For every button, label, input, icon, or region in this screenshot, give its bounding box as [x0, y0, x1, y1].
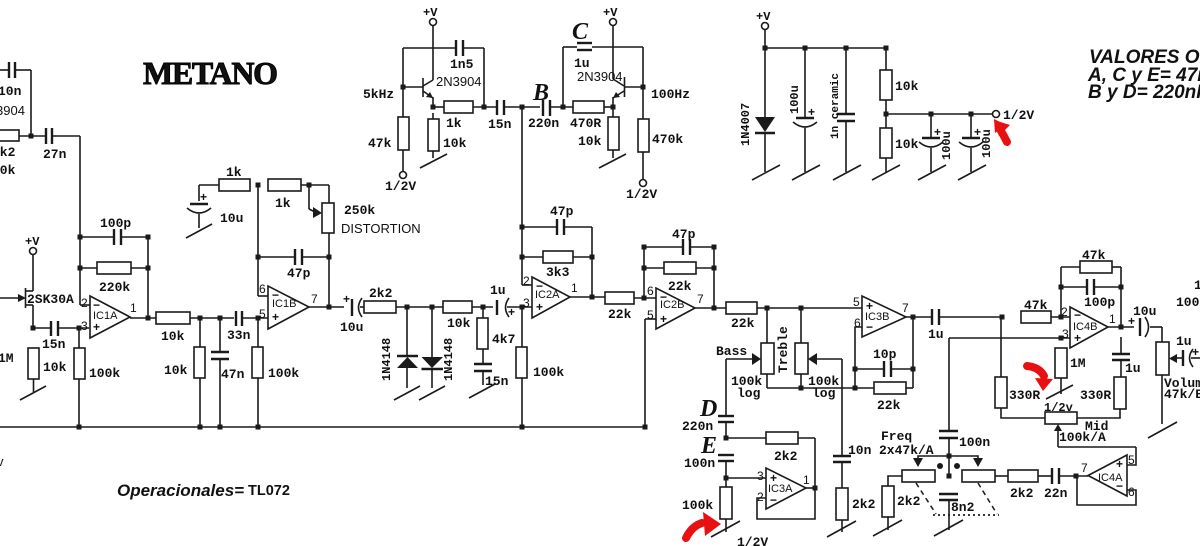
node IC3A out: [806, 487, 815, 489]
svg-text:1/2V: 1/2V: [737, 535, 768, 546]
wire IC4B output node: [1108, 326, 1134, 328]
potentiometer Freq right 47k/A: [962, 470, 1008, 482]
svg-text:1k: 1k: [446, 116, 462, 131]
svg-text:47p: 47p: [550, 204, 574, 219]
wire 1/2V row: [886, 113, 992, 115]
svg-text:Freq: Freq: [881, 429, 912, 444]
node 1k junction: [256, 183, 261, 188]
wire 27n down to IC1A feedback column: [79, 136, 81, 305]
capacitor 22n (into IC4A): [1044, 468, 1088, 501]
node between freq pots: [947, 474, 952, 479]
op-amp U3 IC2A: [523, 274, 578, 318]
ground slash (100u 1): [792, 165, 820, 180]
op-amp U1 IC1A: [80, 296, 137, 338]
resistor 10k (after diodes): [443, 301, 493, 331]
svg-text:47k/B: 47k/B: [1164, 387, 1200, 402]
svg-text:IC4A: IC4A: [1098, 472, 1123, 484]
capacitor 47p (IC1B feedback): [258, 249, 329, 281]
svg-text:IC3B: IC3B: [865, 311, 889, 323]
resistor 100k (IC1A pin3 to rail): [74, 328, 120, 427]
svg-text:+: +: [343, 292, 350, 306]
svg-text:100k: 100k: [533, 365, 564, 380]
node IC3A pin3: [724, 476, 729, 481]
capacitor 1n5: [450, 40, 484, 107]
svg-text:1u: 1u: [928, 327, 944, 342]
node IC2B pin6: [642, 296, 647, 301]
wire IC2B feedback left column: [643, 247, 645, 298]
svg-text:+: +: [1116, 457, 1123, 471]
svg-text:2N3904: 2N3904: [436, 74, 482, 89]
svg-text:1/2V: 1/2V: [626, 187, 657, 202]
capacitor 100p (IC1A feedback): [80, 216, 148, 245]
ground slash 1/2V (1M): [1046, 385, 1073, 399]
wire IC2B feedback right column: [713, 247, 715, 308]
svg-text:5: 5: [853, 295, 860, 309]
capacitor 1u (output): [1176, 334, 1200, 367]
ground slash (1N4007): [752, 165, 780, 180]
junction dots on treble bottom rail: [799, 386, 804, 391]
svg-text:log: log: [737, 386, 761, 401]
wire treble bottom rail: [767, 387, 874, 389]
resistor 10k (PSU bottom): [880, 114, 919, 172]
svg-text:7: 7: [697, 292, 704, 306]
ground slash (Q2 10k): [420, 154, 447, 168]
wire feedback right column: [147, 237, 149, 318]
svg-text:3: 3: [81, 319, 88, 333]
svg-text:IC1A: IC1A: [93, 310, 118, 322]
svg-text:v: v: [0, 454, 4, 469]
svg-text:330R: 330R: [1080, 388, 1111, 403]
resistor 2k2 (treble wiper): [836, 488, 876, 532]
resistor 10k (shunt to rail): [164, 318, 205, 427]
power +V terminal (Q3): [603, 6, 618, 79]
resistor 10k (IC1A out): [156, 312, 234, 344]
potentiometer Treble 100k log: [776, 308, 842, 401]
capacitor 100u (PSU 1): [788, 48, 817, 172]
svg-text:2k2: 2k2: [1010, 486, 1034, 501]
wire bass wiper to D cap: [725, 359, 727, 416]
svg-text:47p: 47p: [287, 266, 311, 281]
node 47k/330R: [1000, 315, 1005, 320]
svg-text:1N4148: 1N4148: [442, 338, 456, 381]
svg-text:470R: 470R: [570, 116, 601, 131]
capacitor 47p (IC2A feedback): [522, 204, 592, 235]
ground slash (JFET 10k): [20, 386, 46, 400]
node 47n: [218, 316, 223, 321]
svg-text:10k: 10k: [0, 163, 16, 178]
wire 10n to junction: [30, 70, 32, 136]
svg-text:1u: 1u: [1176, 334, 1192, 349]
junction dots on PSU rail: [763, 46, 768, 51]
op-amp U8 IC4A (mirrored): [1081, 453, 1135, 499]
svg-text:2k2: 2k2: [897, 494, 921, 509]
svg-text:3: 3: [757, 469, 764, 483]
svg-text:100u: 100u: [940, 131, 954, 160]
svg-text:22k: 22k: [668, 279, 692, 294]
resistor 100k (IC1B pin5 to rail): [252, 318, 299, 427]
resistor 100k (IC2A pin3 to rail): [516, 307, 564, 427]
svg-text:3: 3: [523, 296, 530, 310]
svg-text:10n: 10n: [0, 84, 22, 99]
potentiometer Mid 100k/A: [1045, 412, 1136, 447]
node 1k2 junction: [307, 183, 312, 188]
svg-text:6: 6: [647, 284, 654, 298]
svg-text:IC2A: IC2A: [535, 289, 560, 301]
terminal 1/2V (PSU): [993, 108, 1035, 123]
svg-text:100k: 100k: [268, 366, 299, 381]
wire base up and over to 1n5: [402, 48, 404, 87]
svg-text:1/2V: 1/2V: [385, 179, 416, 194]
resistor 10k (PSU top): [880, 48, 919, 114]
svg-text:10k: 10k: [447, 316, 471, 331]
node Q3 base: [641, 85, 646, 90]
capacitor 220n (D): [682, 416, 734, 438]
power +V terminal (Q2): [423, 6, 438, 80]
svg-text:1n ceramic: 1n ceramic: [830, 73, 842, 139]
resistor 1k (bias row left): [199, 165, 250, 201]
capacitor 1u (IC3B out coupling): [928, 309, 1002, 342]
svg-text:1M: 1M: [1070, 356, 1086, 371]
capacitor 10u (coupling after IC1B): [340, 292, 364, 335]
node 10k vert: [198, 316, 203, 321]
terminal 1/2V (470k): [626, 180, 657, 203]
resistor 22k (IC3B feedback): [874, 382, 913, 413]
svg-text:100Hz: 100Hz: [651, 87, 690, 102]
svg-text:10k: 10k: [161, 329, 185, 344]
ground slash (D2): [419, 386, 445, 400]
svg-text:47p: 47p: [672, 227, 696, 242]
svg-text:2: 2: [1061, 305, 1068, 319]
wire IC3B feedback right column: [912, 317, 914, 388]
svg-text:1: 1: [571, 281, 578, 295]
wire IC3A pin3 row: [726, 477, 766, 479]
power +V terminal (PSU): [756, 10, 771, 48]
ground slash (100u 2): [918, 165, 946, 180]
junction IC3B feedback right nodes: [911, 367, 916, 372]
wire IC3A pin2 loop: [757, 488, 815, 519]
capacitor 100u (PSU 2): [919, 114, 954, 172]
svg-text:250k: 250k: [344, 203, 375, 218]
svg-text:3904: 3904: [0, 103, 25, 118]
svg-text:1k: 1k: [275, 196, 291, 211]
resistor 220k (IC1A feedback): [80, 262, 148, 295]
resistor 2k2 (into IC4A): [1008, 470, 1052, 501]
wire bottom rail: [0, 426, 645, 428]
svg-text:+: +: [200, 190, 207, 204]
ground slash (10u bias): [186, 224, 212, 238]
capacitor 15n (below 4k7): [474, 364, 509, 389]
wire IC1A output: [130, 317, 156, 319]
op-amp U4 IC2B: [647, 284, 704, 329]
svg-text:1u: 1u: [1125, 361, 1141, 376]
node diode 1: [405, 305, 410, 310]
resistor 3k3 (IC2A feedback): [522, 251, 592, 280]
ground slash (2k2 treble): [827, 521, 856, 537]
gang dashed lines: [916, 483, 936, 514]
svg-text:100u: 100u: [788, 85, 802, 114]
ground slash (10k PSU): [872, 165, 900, 180]
svg-text:8n2: 8n2: [951, 500, 975, 515]
node top-left junction: [29, 134, 34, 139]
node diode 2: [430, 305, 435, 310]
wire IC2A feedback right column: [591, 227, 593, 297]
svg-text:+: +: [1074, 331, 1081, 345]
wire to right wiper: [949, 456, 978, 459]
svg-text:2: 2: [81, 296, 88, 310]
svg-text:+: +: [93, 320, 100, 334]
resistor 2k2 (top-left, cut): [0, 130, 46, 178]
capacitor 10p (IC3B feedback): [855, 347, 913, 377]
svg-text:220k: 220k: [99, 280, 130, 295]
svg-text:1: 1: [1109, 312, 1116, 326]
svg-text:−: −: [1074, 308, 1081, 322]
resistor 22k (IC2B out): [726, 302, 862, 331]
resistor 100k (to 1/2V bottom): [682, 487, 732, 532]
svg-text:−: −: [770, 493, 777, 507]
node 1n5/15n: [482, 105, 487, 110]
node IC1A pin3: [77, 326, 82, 331]
svg-text:22k: 22k: [608, 307, 632, 322]
potentiometer 250k DISTORTION: [309, 185, 421, 257]
svg-text:10k: 10k: [578, 134, 602, 149]
svg-text:Operacionales=: Operacionales=: [117, 481, 244, 500]
svg-text:47k: 47k: [1024, 298, 1048, 313]
node Treble top: [799, 306, 804, 311]
node feedback left bottom: [78, 266, 83, 271]
node IC2A pin3: [520, 305, 525, 310]
svg-text:10k: 10k: [164, 363, 188, 378]
capacitor 27n: [43, 128, 80, 162]
resistor 470k: [638, 119, 683, 179]
resistor 10k (Q2 emitter shunt): [428, 113, 467, 158]
svg-text:10u: 10u: [340, 320, 363, 335]
svg-text:100: 100: [1176, 295, 1200, 310]
red arrow (points at 100k bottom): [686, 523, 702, 538]
wire IC4A pin6 feedback loop: [1077, 478, 1136, 505]
capacitor 100p (IC4B feedback): [1061, 279, 1121, 310]
svg-text:2k2: 2k2: [369, 286, 393, 301]
wire IC1B pin6 column: [257, 185, 259, 296]
svg-text:1: 1: [803, 473, 810, 487]
node C cap left: [561, 105, 566, 110]
op-amp U2 IC1B: [259, 282, 318, 329]
capacitor 100u (PSU 3): [959, 114, 994, 172]
node 47p left: [256, 255, 261, 260]
node Q2 emitter: [431, 105, 436, 110]
svg-text:10k: 10k: [443, 136, 467, 151]
wire IC4B feedback left column: [1060, 267, 1062, 317]
svg-text:5: 5: [259, 307, 266, 321]
resistor 1k (second): [268, 179, 329, 211]
node Q2 base: [401, 85, 406, 90]
svg-text:IC1B: IC1B: [272, 298, 296, 310]
node IC4B pin2: [1059, 315, 1064, 320]
resistor 2k2 (freq left leg): [882, 486, 921, 530]
svg-text:1/2V: 1/2V: [1003, 108, 1034, 123]
svg-text:IC2B: IC2B: [660, 299, 684, 311]
capacitor 10n (treble wiper): [833, 443, 872, 488]
svg-text:C: C: [572, 19, 589, 45]
junction IC2A feedback right nodes: [590, 255, 595, 260]
svg-text:6: 6: [259, 282, 266, 296]
diode D1 1N4148 (up): [380, 307, 418, 388]
node IC4A pin7: [1074, 474, 1079, 479]
svg-text:B y D= 220nF ": B y D= 220nF ": [1088, 82, 1200, 103]
wire IC4A pin5 stub: [1127, 447, 1136, 465]
svg-text:B: B: [532, 80, 549, 106]
svg-text:10p: 10p: [873, 347, 897, 362]
svg-text:+: +: [508, 305, 515, 319]
resistor 47k (Q2 base to 1/2V): [368, 87, 409, 171]
svg-text:TL072: TL072: [248, 483, 290, 499]
svg-text:100u: 100u: [980, 129, 994, 158]
svg-text:27n: 27n: [43, 147, 67, 162]
capacitor 1u (below IC4B out): [1112, 337, 1141, 377]
svg-text:5kHz: 5kHz: [363, 87, 394, 102]
capacitor 10u (IC4B out): [1128, 304, 1162, 337]
svg-text:220n: 220n: [682, 419, 713, 434]
capacitor 47n (shunt to rail): [211, 318, 245, 427]
svg-text:10u: 10u: [220, 211, 243, 226]
power +V terminal (JFET drain): [25, 235, 40, 291]
svg-text:10k: 10k: [895, 137, 919, 152]
svg-text:100k: 100k: [89, 366, 120, 381]
svg-text:1k: 1k: [226, 165, 242, 180]
node 1/2V divider: [884, 112, 889, 117]
capacitor 8n2: [939, 494, 975, 530]
node JFET source: [31, 326, 36, 331]
wire IC3B pin6 column: [855, 327, 862, 388]
capacitor 1u (into IC2A): [490, 283, 532, 319]
svg-text:22n: 22n: [1044, 486, 1068, 501]
svg-text:10k: 10k: [43, 360, 67, 375]
resistor 10k (JFET source load): [28, 348, 67, 392]
ground slash (100u 3): [958, 165, 986, 180]
svg-text:7: 7: [311, 292, 318, 306]
junction dots on 1/2V row: [929, 112, 934, 117]
terminal 1/2V (Q2): [385, 172, 416, 195]
op-amp U5 IC3A: [757, 468, 810, 509]
op-amp U6 IC3B: [853, 295, 909, 337]
ground slash (8n2): [934, 520, 963, 536]
ground slash (15n): [469, 384, 495, 398]
wire treble wiper column: [841, 359, 843, 456]
svg-text:7: 7: [1081, 461, 1088, 475]
diode D3 1N4007: [739, 48, 775, 172]
svg-text:2k2: 2k2: [0, 145, 16, 160]
ground slash (volume): [1148, 422, 1177, 438]
wire freq column from pin3: [948, 338, 950, 431]
svg-text:100k: 100k: [682, 498, 713, 513]
wire IC4B pin3 row: [949, 337, 1070, 339]
svg-text:2: 2: [757, 490, 764, 504]
svg-text:4k7: 4k7: [492, 332, 515, 347]
svg-text:47k: 47k: [1082, 248, 1106, 263]
svg-text:10u: 10u: [1133, 304, 1156, 319]
node IC1B pin5: [256, 316, 261, 321]
node B: [520, 105, 525, 110]
svg-text:DISTORTION: DISTORTION: [341, 221, 421, 236]
wire IC1B output: [309, 306, 344, 308]
svg-text:220n: 220n: [528, 116, 559, 131]
svg-text:3k3: 3k3: [546, 265, 570, 280]
svg-text:100n: 100n: [959, 435, 990, 450]
wire E row to 2k2: [726, 437, 766, 439]
node Q3 emitter: [611, 105, 616, 110]
svg-text:15n: 15n: [42, 337, 66, 352]
resistor 10k (Q3 emitter shunt): [578, 107, 619, 158]
svg-text:100k/A: 100k/A: [1059, 430, 1106, 445]
svg-text:2N3904: 2N3904: [577, 69, 623, 84]
svg-text:15n: 15n: [488, 117, 512, 132]
capacitor 47p (IC2B feedback): [644, 227, 714, 255]
potentiometer Bass 100k log: [716, 308, 774, 401]
wire B-node down to IC2A pin2 network: [521, 108, 523, 285]
svg-text:10n: 10n: [848, 443, 872, 458]
wire IC2A output: [570, 296, 605, 298]
wire C-cap left column: [562, 47, 564, 107]
wire 250k bottom to IC1B out: [328, 257, 330, 307]
capacitor 100n (E): [684, 455, 734, 487]
svg-text:2: 2: [523, 274, 530, 288]
svg-text:1n5: 1n5: [450, 57, 474, 72]
svg-text:22k: 22k: [731, 316, 755, 331]
diode D2 1N4148 (down): [422, 307, 457, 388]
svg-text:2k2: 2k2: [774, 449, 798, 464]
svg-text:100n: 100n: [684, 456, 715, 471]
svg-text:+V: +V: [423, 6, 438, 20]
resistor 47k (into IC4B): [1021, 298, 1070, 323]
ground slash (2k2 freq): [873, 520, 902, 536]
resistor 470R: [570, 101, 613, 131]
transistor Q1 2SK30A JFET: [0, 288, 74, 328]
svg-text:2SK30A: 2SK30A: [27, 292, 74, 307]
svg-text:2x47k/A: 2x47k/A: [879, 443, 934, 458]
capacitor 100n (freq): [939, 431, 990, 475]
svg-text:+: +: [1192, 345, 1199, 359]
svg-text:22k: 22k: [877, 398, 901, 413]
capacitor 10u electrolytic (bias): [187, 190, 243, 228]
svg-text:7: 7: [902, 301, 909, 315]
node freq wipers: [947, 454, 952, 459]
resistor 2k2 (IC3A feedback): [766, 432, 815, 488]
op-amp U7 IC4B: [1061, 305, 1116, 348]
svg-text:100p: 100p: [1084, 295, 1115, 310]
red arrow (points at 1/2V terminal): [1001, 131, 1007, 142]
svg-text:47k: 47k: [368, 136, 392, 151]
ground slash (100k 1/2V): [711, 521, 740, 537]
gang dots: [937, 463, 943, 469]
wire IC3B output: [906, 316, 932, 318]
svg-text:10k: 10k: [895, 79, 919, 94]
capacitor 15n (input to IC1A): [33, 321, 89, 352]
wire IC2B pin5 to rail: [645, 318, 656, 320]
wire IC2B output: [695, 307, 726, 309]
svg-text:+: +: [272, 310, 279, 324]
svg-text:1M: 1M: [0, 351, 14, 366]
resistor 330R (right): [1076, 377, 1126, 418]
svg-text:1N4148: 1N4148: [380, 338, 394, 381]
resistor 22k (IC2B feedback): [644, 262, 714, 294]
node Bass top: [765, 306, 770, 311]
svg-text:100p: 100p: [100, 216, 131, 231]
resistor 330R (left): [995, 317, 1045, 418]
wire IC4B feedback right column: [1120, 267, 1122, 327]
resistor 47k (IC4B feedback): [1061, 248, 1121, 273]
svg-text:Bass: Bass: [716, 344, 747, 359]
resistor 22k (IC2A out): [605, 292, 656, 322]
node 47p right: [327, 255, 332, 260]
